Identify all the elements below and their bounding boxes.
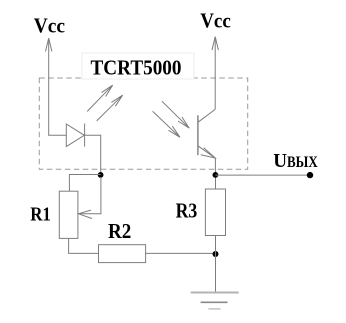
wire R1 wiper from junction [79, 177, 101, 214]
IR ray arrow from LED (upper) [87, 85, 112, 111]
node junction dot emitter/R3/output [213, 172, 219, 178]
dashed sensor outline box TCRT5000 [39, 78, 247, 169]
svg-text:TCRT5000: TCRT5000 [91, 56, 182, 80]
ground symbol [191, 293, 239, 309]
wire LED cathode to corner [85, 135, 101, 174]
IR ray arrow from LED (lower) [97, 95, 123, 121]
transistor Q1 emitter slant [198, 146, 216, 158]
wire R2 to ground node [146, 252, 216, 254]
node output terminal dot [307, 172, 313, 178]
svg-text:U: U [273, 150, 287, 172]
label background plate [82, 53, 194, 79]
diode D1 cathode bar [84, 124, 86, 147]
arrowhead R1 wiper [79, 210, 93, 218]
svg-text:R3: R3 [176, 199, 198, 223]
diode D1 (IR LED) triangle [66, 124, 84, 147]
svg-text:R1: R1 [30, 203, 51, 225]
wire emitter to junction [214, 158, 216, 175]
node junction dot LED/R1 [98, 172, 104, 178]
resistor R2 body [99, 245, 146, 263]
wire output to terminal [215, 174, 309, 176]
wire R1 bottom to R2 [69, 238, 99, 253]
arrowhead Vcc left [46, 38, 52, 52]
svg-text:ВЫХ: ВЫХ [287, 154, 318, 171]
IR ray arrow to transistor (lower) [153, 111, 180, 137]
svg-text:Vcc: Vcc [34, 14, 65, 38]
node junction dot R2/R3/ground [213, 251, 219, 257]
wire junction to R1 top [69, 175, 100, 192]
arrowhead Vcc right [212, 37, 218, 51]
IR ray arrow to transistor (upper) [162, 101, 189, 128]
resistor R3 body [205, 189, 225, 236]
arrowhead emitter [201, 148, 216, 158]
svg-text:Vcc: Vcc [200, 9, 231, 33]
svg-text:R2: R2 [108, 219, 131, 243]
wire LED anode horizontal [48, 134, 66, 136]
wire Vcc left vertical [48, 39, 50, 135]
transistor Q1 phototransistor body bar [197, 115, 199, 155]
node Uвых output label [273, 150, 318, 172]
wire R3 bottom lead [215, 236, 217, 255]
resistor R1 body (potentiometer) [59, 191, 78, 238]
wire node to ground [215, 254, 217, 292]
wire R3 top lead [215, 175, 217, 189]
transistor Q1 collector slant [198, 109, 215, 122]
wire Vcc right vertical (collector lead) [214, 38, 216, 110]
